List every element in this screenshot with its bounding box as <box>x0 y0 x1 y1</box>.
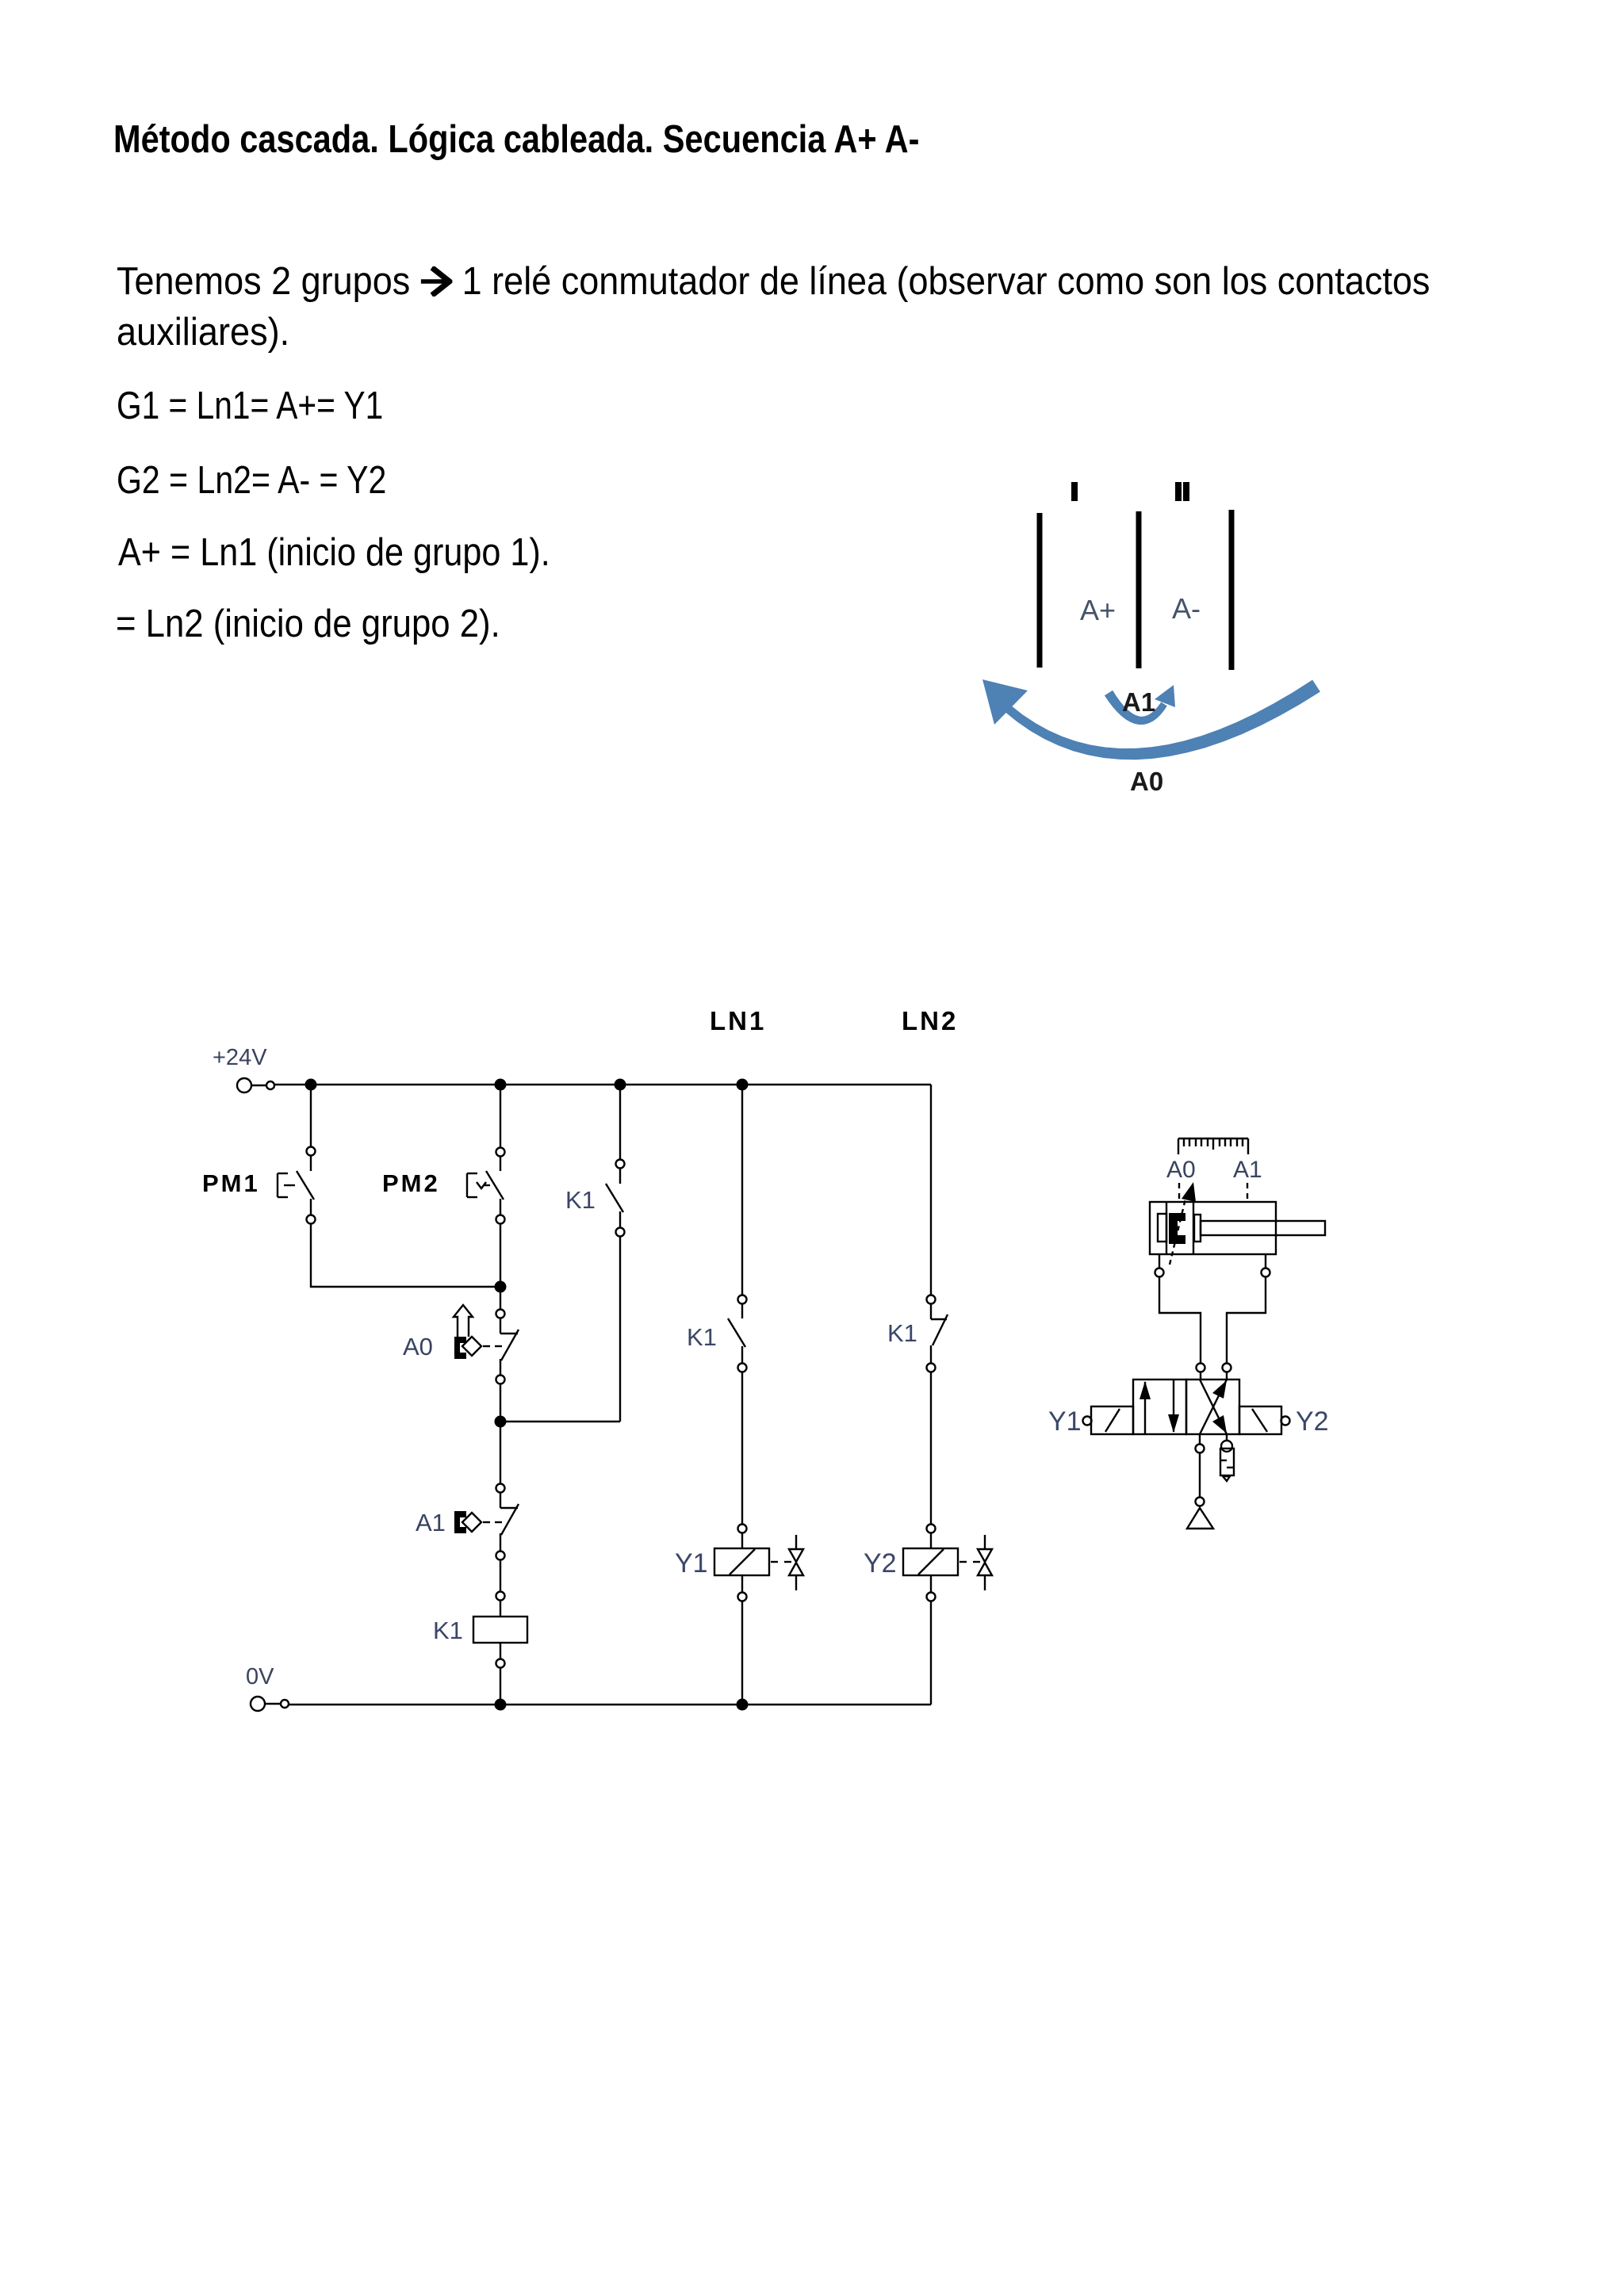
svg-text:A1: A1 <box>1233 1157 1262 1183</box>
arrow arc A0 (big) <box>982 679 1320 760</box>
svg-text:A0: A0 <box>1166 1157 1196 1183</box>
eq lines <box>117 384 383 428</box>
+24V terminal <box>237 1078 251 1093</box>
label II <box>1175 482 1182 501</box>
svg-text:K1: K1 <box>565 1186 596 1214</box>
wire 0V rail <box>289 1704 931 1705</box>
svg-text:A0: A0 <box>403 1333 433 1360</box>
node rail-LN1 <box>737 1079 749 1091</box>
svg-text:K1: K1 <box>687 1323 717 1351</box>
valve port 4 <box>1197 1364 1205 1372</box>
solenoid Y2 <box>903 1525 992 1705</box>
ruler scale <box>1178 1138 1248 1154</box>
svg-text:K1: K1 <box>433 1617 463 1644</box>
svg-text:A+: A+ <box>1080 594 1116 626</box>
svg-text:A1: A1 <box>416 1509 446 1536</box>
svg-text:A1: A1 <box>1122 687 1155 717</box>
solenoid pilot Y1 <box>1083 1406 1134 1434</box>
contact K1 LN2 (NC) <box>927 1085 948 1524</box>
svg-text:K1: K1 <box>887 1319 917 1347</box>
solenoid Y1 <box>714 1525 803 1705</box>
relay coil K1 <box>473 1592 527 1705</box>
wire PM1 bottom to PM2 branch <box>311 1224 500 1287</box>
node A0-K1 junction <box>495 1416 507 1428</box>
group bar middle <box>1136 511 1142 668</box>
wire K1 to A0-A1 junction <box>500 1421 620 1422</box>
supply port P <box>1187 1434 1213 1529</box>
exhaust muffler R <box>1220 1434 1234 1481</box>
solenoid pilot Y2 <box>1239 1406 1290 1434</box>
node rail-PM2 <box>495 1079 507 1091</box>
valve 5/2 body <box>1133 1380 1239 1434</box>
node 0V-Y1 <box>737 1699 749 1711</box>
position mark A1 <box>1247 1183 1248 1200</box>
cylinder port stubs <box>1159 1254 1160 1268</box>
svg-text:Y2: Y2 <box>1296 1406 1329 1437</box>
svg-text:0V: 0V <box>246 1664 274 1689</box>
arrow arc A1 (small) <box>1105 685 1175 725</box>
svg-text:Y1: Y1 <box>675 1548 708 1578</box>
0V terminal <box>251 1697 265 1711</box>
svg-text:A-: A- <box>1172 592 1201 625</box>
position mark A0 <box>1178 1183 1180 1200</box>
node rail-K1 <box>615 1079 626 1091</box>
node 0V-K1coil <box>495 1699 507 1711</box>
limit switch A0 (actuated) <box>454 1305 519 1483</box>
tube cylinder left to valve port 4 <box>1159 1277 1201 1363</box>
limit switch A1 <box>454 1484 519 1592</box>
svg-text:Y1: Y1 <box>1048 1406 1082 1437</box>
tube cylinder right to valve port 2 <box>1227 1277 1266 1363</box>
pushbutton PM2 <box>467 1085 505 1224</box>
paragraph <box>117 259 1430 304</box>
svg-text:LN1: LN1 <box>710 1006 766 1035</box>
wire +24V rail <box>274 1084 931 1085</box>
svg-text:+24V: +24V <box>213 1045 267 1070</box>
pushbutton PM1 <box>278 1085 316 1224</box>
group bar I left <box>1037 513 1043 668</box>
label I <box>1071 482 1078 501</box>
cylinder A <box>1150 1182 1325 1265</box>
wire PM2 to A0 <box>500 1224 501 1309</box>
group bar right <box>1229 510 1235 670</box>
svg-text:A0: A0 <box>1130 767 1163 796</box>
contact K1 LN1 (NO) <box>728 1085 747 1524</box>
node PM1-PM2 junction <box>495 1281 507 1293</box>
valve port 2 <box>1223 1364 1231 1372</box>
node rail-PM1 <box>305 1079 317 1091</box>
svg-text:LN2: LN2 <box>902 1006 958 1035</box>
title <box>113 117 919 162</box>
svg-text:PM1: PM1 <box>202 1169 260 1197</box>
svg-text:PM2: PM2 <box>382 1169 440 1197</box>
svg-text:Y2: Y2 <box>864 1548 897 1578</box>
contact K1 self-hold (NO) <box>606 1085 625 1422</box>
